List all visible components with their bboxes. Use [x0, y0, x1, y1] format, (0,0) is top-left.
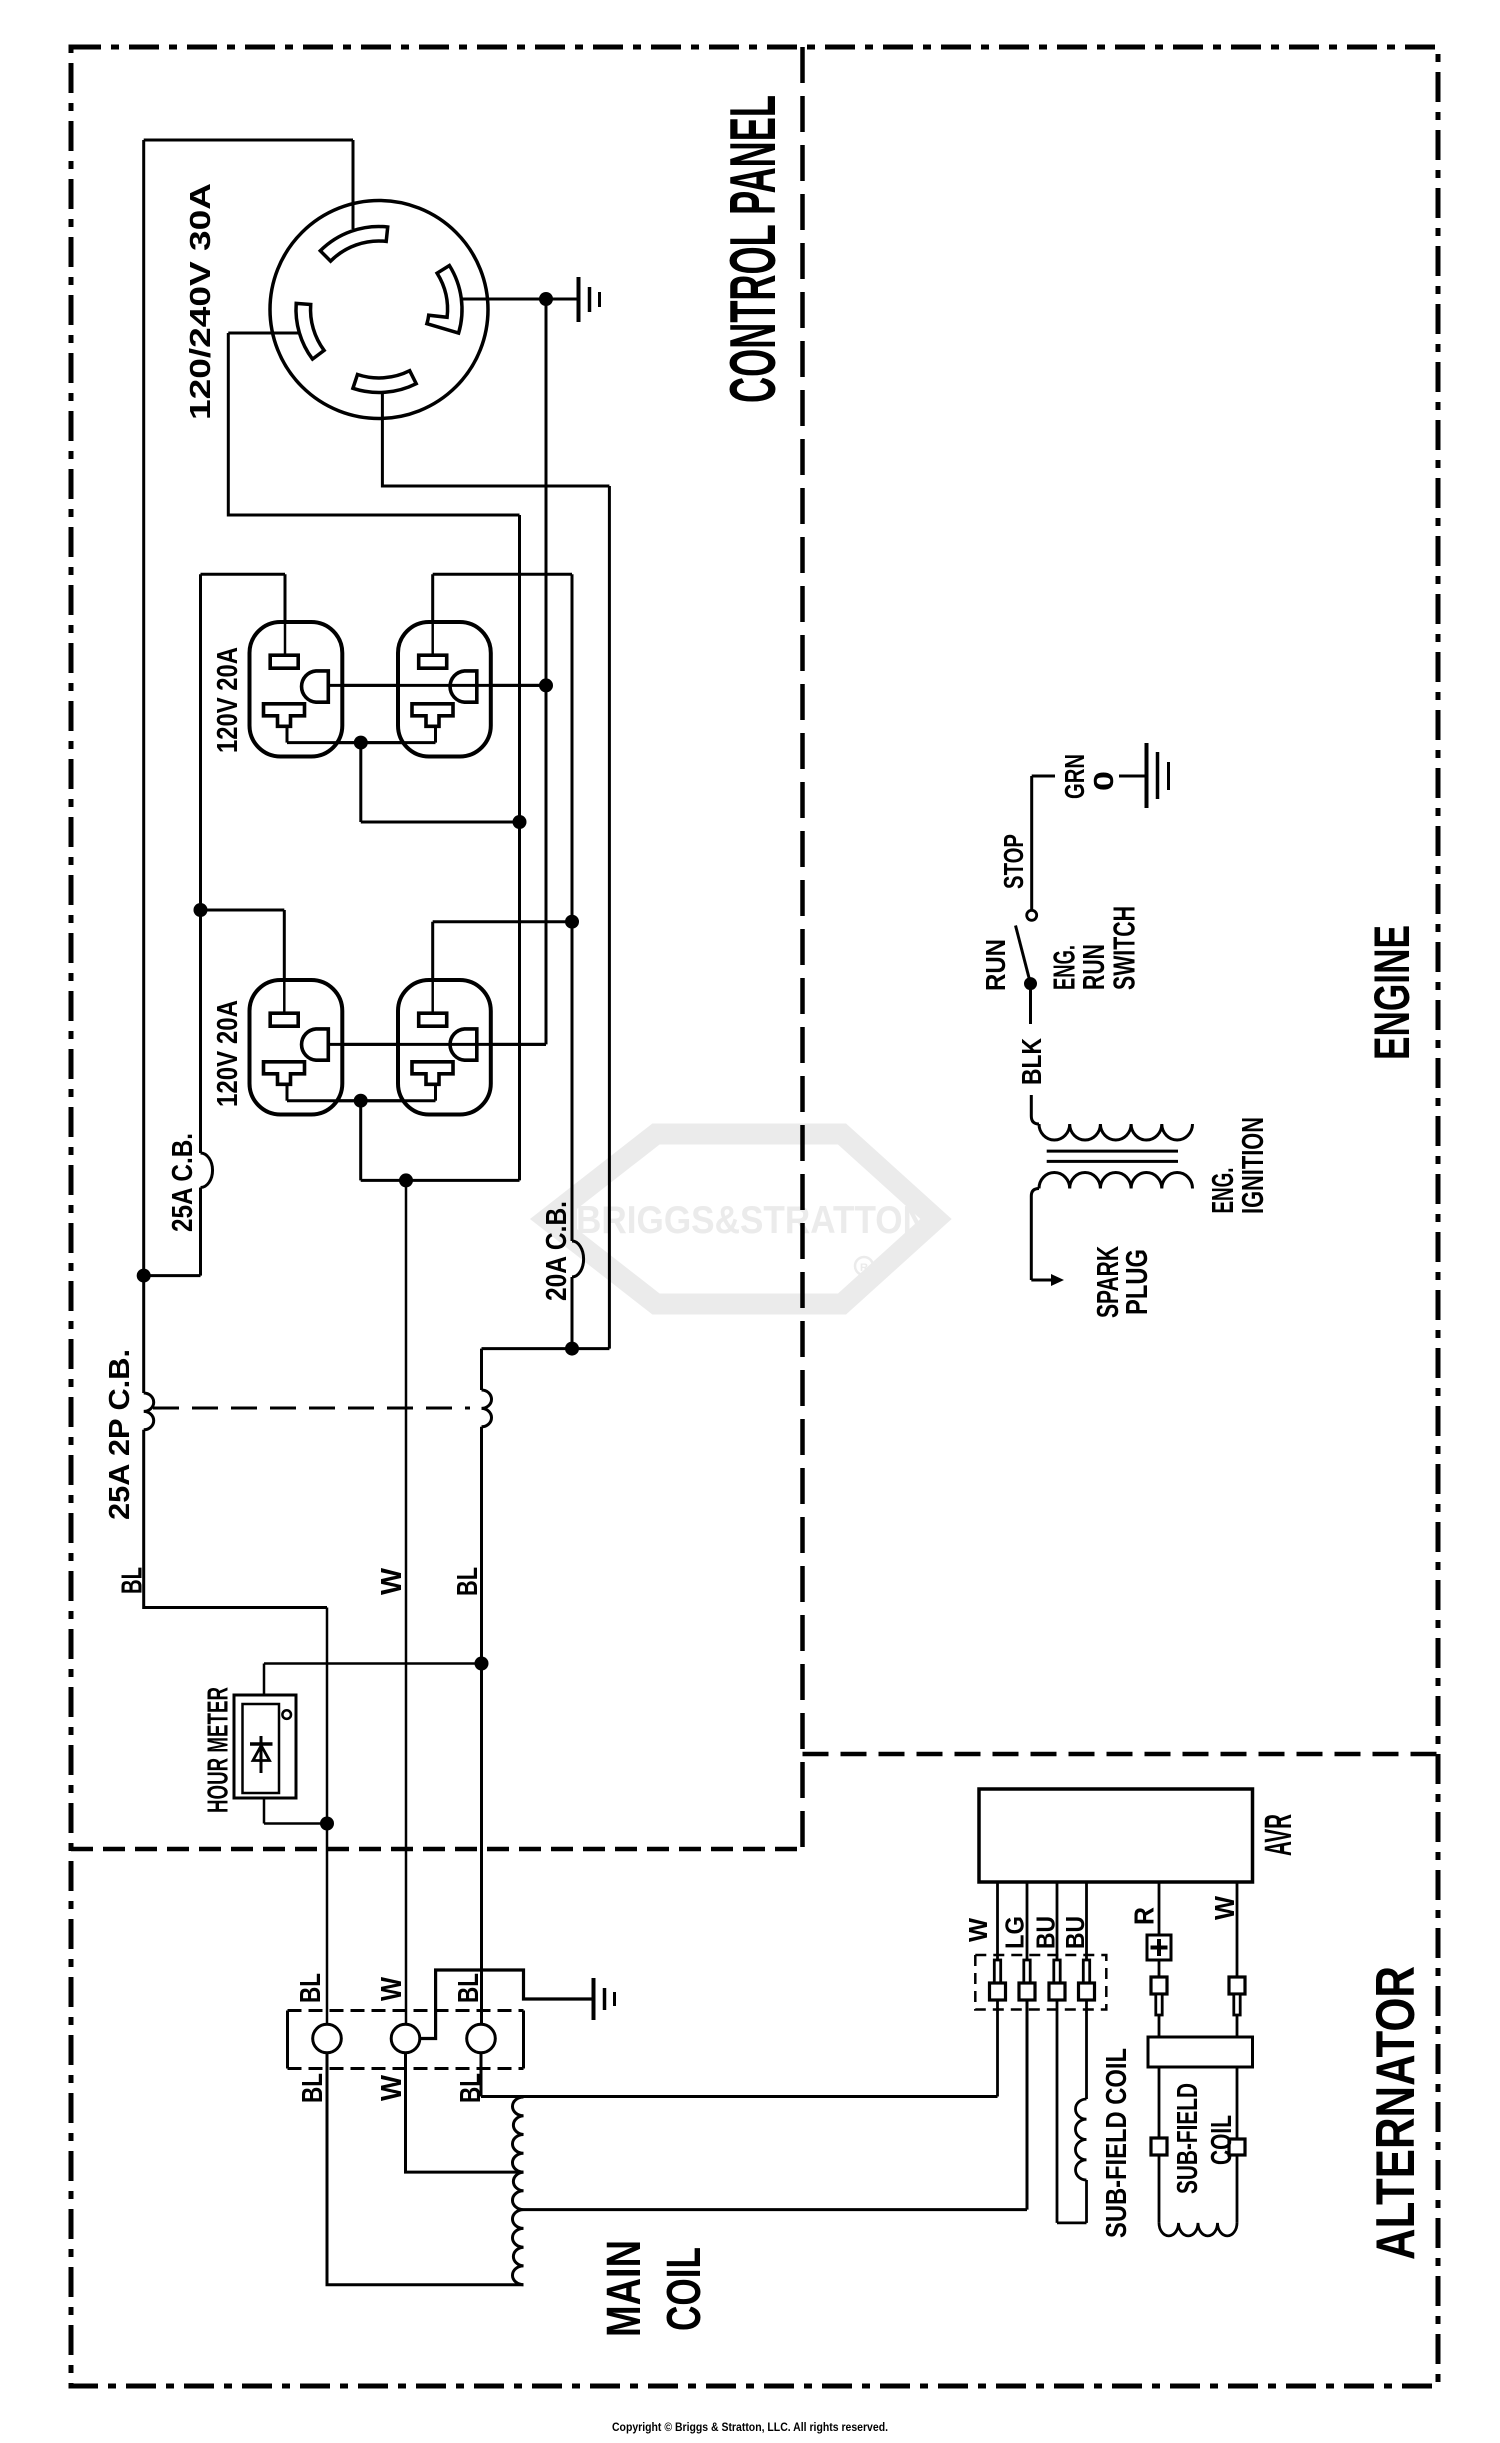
engine box bottom border: [803, 1752, 1439, 1757]
wire 30A bottom slot to x609 drop: [382, 393, 609, 1349]
node junction at 519.5,822: [513, 815, 527, 829]
terminal BL left: [313, 2024, 342, 2053]
wire outlet R1A hot stem drop: [286, 726, 289, 742]
outlet R2B hot T slot: [412, 1062, 453, 1085]
wire outlet R2A hot stem drop: [286, 1085, 289, 1101]
svg-text:BL: BL: [117, 1567, 149, 1594]
receptacle 120/240V 30A (L14-30): [270, 201, 488, 419]
ground symbol at terminal strip: [594, 1978, 615, 2020]
node junction at 546,685.4: [539, 678, 553, 692]
wire secondary to spark plug: [1031, 1189, 1053, 1281]
hour meter diode: [260, 1736, 263, 1773]
svg-text:W: W: [1209, 1895, 1240, 1920]
svg-text:BRIGGS&STRATTON: BRIGGS&STRATTON: [576, 1199, 928, 1242]
wire pair1 ground link: [328, 684, 546, 687]
svg-text:W: W: [963, 1918, 993, 1942]
wire ground bus drop x546: [328, 299, 546, 1044]
ground symbol engine: [1147, 743, 1169, 808]
wire hour meter bottom lead: [264, 1798, 327, 1824]
wire W below connector to main coil top: [996, 2000, 999, 2097]
ignition coil core: [1047, 1151, 1178, 1161]
outlet R1A hot T slot: [264, 704, 305, 727]
30A slot left: [296, 303, 324, 359]
wires into brush block: [1159, 2015, 1237, 2037]
svg-text:SUB-FIELD: SUB-FIELD: [1172, 2083, 1204, 2194]
wire branch to outlet3 neutral: [201, 910, 285, 1014]
wire GRN lead to engine ground: [1119, 775, 1145, 778]
svg-text:BL: BL: [295, 1973, 327, 2003]
wire branch to outlet4 neutral: [433, 922, 572, 1014]
slip ring square W: [1229, 2139, 1245, 2155]
svg-text:ALTERNATOR: ALTERNATOR: [1364, 1966, 1426, 2260]
wire 30A left slot to x228 drop: [228, 333, 519, 515]
circuit breaker 25A C.B.: [201, 1153, 213, 1188]
wire pair1 hot bus (through outlets): [287, 741, 436, 744]
svg-text:BU: BU: [1060, 1916, 1090, 1949]
node junction at 143.7,1275.6: [137, 1269, 151, 1283]
ignition coil primary: [1039, 1124, 1193, 1140]
hour meter: [234, 1695, 296, 1798]
wire hour meter top lead: [264, 1664, 482, 1696]
wire AVR pin BU2: [1085, 1882, 1088, 1960]
switch ENG RUN SWITCH contact (open circle): [1027, 910, 1037, 920]
svg-text:BL: BL: [453, 1973, 485, 2003]
terminal strip: [288, 1970, 593, 2069]
wire 25A CB vertical: [199, 574, 202, 1153]
svg-text:20A C.B.: 20A C.B.: [541, 1201, 573, 1301]
svg-text:MAIN: MAIN: [598, 2240, 651, 2337]
outlet R1B outline: [398, 622, 491, 757]
wire node 1348 to 2P pole 2: [482, 1349, 573, 1390]
node junction at 406,1180.4: [399, 1173, 413, 1187]
wire top-left loop top: [144, 139, 353, 142]
wire left main BL drop (upper): [142, 140, 145, 1393]
control panel bottom border: [71, 1847, 803, 1852]
slip ring square R: [1151, 2138, 1167, 2155]
switch blade: [1016, 926, 1031, 984]
dashed linkage of 2P breaker: [153, 1407, 470, 1410]
node junction at 360.7,1100.7: [354, 1094, 368, 1108]
wire left main BL drop (lower): [144, 1430, 327, 1608]
wire outlet R1A neutral feed (inside outlet): [284, 623, 287, 656]
wire 30A right slot to ground node: [462, 298, 578, 301]
circuit breaker 25A 2P pole 1: [144, 1393, 154, 1430]
wire pair2 hot riser to W node: [361, 1101, 520, 1181]
wire AVR pin LG: [1026, 1882, 1029, 1960]
outlet R2A neutral slot: [270, 1013, 298, 1026]
outlet R2A ground slot: [302, 1029, 329, 1060]
wire BL left drop to terminal: [326, 1608, 329, 2025]
outlet R1B ground slot: [450, 671, 477, 702]
outlet R2A hot T slot: [264, 1062, 305, 1085]
wire outlet R1B neutral feed (inside outlet): [431, 623, 434, 656]
outlet R1A neutral slot: [270, 655, 298, 668]
svg-text:BU: BU: [1031, 1916, 1061, 1949]
outlet R2A outline: [250, 980, 343, 1115]
svg-text:GRN: GRN: [1059, 754, 1090, 799]
30A slot bottom: [353, 371, 416, 393]
wire outlet R2B hot stem drop: [434, 1085, 437, 1101]
main coil winding: [512, 2097, 523, 2285]
svg-text:CONTROL PANEL: CONTROL PANEL: [716, 95, 789, 403]
svg-text:RUN: RUN: [980, 939, 1011, 991]
svg-text:BLK: BLK: [1016, 1038, 1047, 1085]
sub-field coil 1 winding: [1075, 2099, 1086, 2180]
wires below brush block: [1159, 2067, 1237, 2139]
svg-text:25A 2P C.B.: 25A 2P C.B.: [104, 1349, 136, 1520]
svg-text:SUB-FIELD COIL: SUB-FIELD COIL: [1101, 2048, 1133, 2238]
wire pair1 ground link (through outlets): [328, 684, 546, 687]
svg-text:ENGINE: ENGINE: [1364, 925, 1420, 1060]
wire outlet R2A neutral feed (inside outlet): [283, 981, 286, 1014]
outlet R1A ground slot: [302, 671, 329, 702]
spark plug arrowhead: [1051, 1274, 1064, 1286]
outlet R2B ground slot: [450, 1029, 477, 1060]
ignition coil secondary: [1039, 1173, 1193, 1189]
svg-text:PLUG: PLUG: [1119, 1249, 1154, 1315]
node junction at 481.5,1663.5: [475, 1657, 489, 1671]
svg-text:SWITCH: SWITCH: [1107, 906, 1142, 990]
svg-text:BL: BL: [452, 1567, 484, 1596]
30A slot top: [320, 227, 387, 262]
wire pair2 hot bus: [287, 1086, 436, 1101]
svg-text:IGNITION: IGNITION: [1235, 1117, 1270, 1214]
W right lead pin: [1229, 1977, 1245, 1994]
wire x519 drop to W node: [518, 515, 521, 1180]
30A slot right (ground L): [427, 266, 462, 334]
control panel / engine divider: [800, 47, 805, 1849]
svg-text:COIL: COIL: [1206, 2115, 1238, 2165]
wire main coil top to BL terminal and AVR W: [481, 2053, 998, 2097]
outlet R1B hot T slot: [412, 704, 453, 727]
wire outlet R2B neutral feed (inside outlet): [431, 981, 434, 1014]
R lead pin: [1158, 1960, 1161, 1977]
wire 25A CB upper to outlet1 neutral: [201, 574, 286, 656]
wire main coil mid tap to W terminal: [406, 2053, 524, 2172]
wires to sub-field coil 2: [1159, 2155, 1237, 2223]
wire engine switch common to GRN: [1032, 776, 1055, 910]
svg-text:120V 20A: 120V 20A: [212, 1000, 244, 1107]
node junction at 546,299: [539, 292, 553, 306]
wire pair1 hot bus: [287, 728, 520, 822]
diode/fuse box with plus on R lead: [1147, 1935, 1171, 1960]
svg-text:120V 20A: 120V 20A: [212, 647, 244, 753]
svg-text:LG: LG: [1000, 1916, 1030, 1949]
brush block: [1148, 2037, 1253, 2067]
wire AVR pin R: [1158, 1882, 1161, 1935]
wire switch to BLK label: [1029, 990, 1032, 1024]
connector pin BU2: [1083, 1960, 1089, 1983]
wire outlet R1A neutral feed: [284, 656, 287, 657]
wire BL right drop to terminal: [480, 1427, 483, 2024]
wire outlet R1B hot stem drop: [434, 726, 437, 742]
ground symbol top (3 bars): [577, 277, 581, 322]
svg-text:25A C.B.: 25A C.B.: [167, 1133, 199, 1232]
svg-text:R: R: [1129, 1907, 1160, 1925]
wire main coil LG tap to AVR: [524, 2000, 1028, 2210]
watermark briggs and stratton logo: [547, 1134, 936, 1304]
svg-text:BL: BL: [297, 2073, 329, 2103]
svg-text:R: R: [860, 1262, 868, 1274]
outlet R2B neutral slot: [419, 1013, 447, 1026]
node junction at 327,1823.5: [320, 1817, 334, 1831]
wire 25A CB lower to dot: [144, 1188, 201, 1276]
svg-text:HOUR METER: HOUR METER: [203, 1687, 235, 1813]
wire pair2 ground link (through outlets): [328, 1043, 546, 1046]
connector pin W: [994, 1960, 1000, 1983]
wire AVR pin W right: [1236, 1882, 1239, 1977]
svg-text:AVR: AVR: [1258, 1814, 1300, 1856]
outlet R1B neutral slot: [419, 655, 447, 668]
terminal W middle: [391, 2024, 420, 2053]
node junction at 360.8,742.6: [354, 736, 368, 750]
wire main coil bottom to BL terminal: [327, 2053, 524, 2285]
svg-text:W: W: [376, 2074, 408, 2101]
svg-text:BL: BL: [455, 2073, 487, 2103]
svg-text:0: 0: [1088, 771, 1119, 791]
svg-text:W: W: [376, 1567, 408, 1595]
sub-field coil 2 winding: [1159, 2223, 1237, 2236]
node junction at 572,921.7: [565, 915, 579, 929]
wire BU2 below connector to sub-field coil 1: [1085, 2000, 1088, 2099]
svg-text:120/240V 30A: 120/240V 30A: [185, 183, 217, 420]
wire W drop to terminal: [405, 1180, 408, 2024]
terminal BL right: [467, 2024, 496, 2053]
wire AVR pin BU1: [1056, 1882, 1059, 1960]
svg-text:COIL: COIL: [658, 2247, 711, 2331]
circuit breaker 20A C.B.: [572, 1241, 584, 1277]
wire 20A CB vertical lower: [571, 1277, 574, 1349]
connector pin LG: [1024, 1960, 1030, 1983]
circuit breaker 25A 2P pole 2: [482, 1390, 492, 1427]
wire W terminal jumper to ground: [420, 1970, 592, 2039]
node junction at 200.5,910: [194, 903, 208, 917]
AVR box: [979, 1789, 1253, 1882]
wire BLK to ignition primary: [1031, 1095, 1039, 1124]
wire pair2 hot bus (through outlets): [287, 1099, 436, 1102]
connector pin BU1: [1054, 1960, 1060, 1983]
svg-text:Copyright © Briggs & Stratton,: Copyright © Briggs & Stratton, LLC. All …: [612, 2422, 888, 2434]
wire sub-field coil 1 bottom: [1085, 2180, 1088, 2223]
svg-text:W: W: [376, 1976, 408, 2001]
outlet R2B outline: [398, 980, 491, 1115]
wire BU1 below connector: [1057, 2000, 1087, 2223]
wire 20A CB top to outlet2 neutral: [433, 574, 572, 656]
svg-text:STOP: STOP: [998, 834, 1029, 889]
wire AVR pin W: [996, 1882, 999, 1960]
switch pivot dot: [1024, 977, 1037, 990]
node junction at 572,1348.6: [565, 1342, 579, 1356]
hour meter stud circle: [282, 1710, 291, 1719]
wire to 30A receptacle top slot: [352, 140, 355, 229]
outlet R1A outline: [250, 622, 343, 757]
connector block (dashed): [975, 1955, 1106, 2010]
wire 20A CB vertical upper: [571, 574, 574, 1241]
